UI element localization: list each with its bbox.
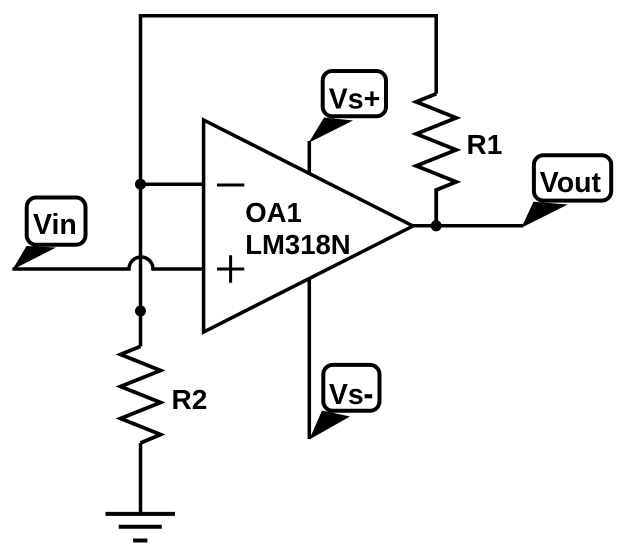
wire output: op-amp apex to Vout flag [413, 224, 523, 228]
junction dot node B (R2 top) [135, 306, 146, 317]
flag Vin (net label) [12, 198, 85, 270]
svg-text:Vs+: Vs+ [329, 83, 381, 115]
svg-text:Vin: Vin [33, 209, 77, 241]
wire feedback loop: node A up, across top, down to R1 [141, 16, 437, 347]
wire R2 bottom to ground [139, 443, 143, 514]
flag Vs- (net label) [309, 365, 379, 440]
svg-text:Vout: Vout [540, 167, 602, 199]
wire Vs+ pin to op-amp top edge [308, 141, 312, 175]
svg-text:R1: R1 [467, 129, 503, 160]
svg-text:LM318N: LM318N [245, 229, 350, 260]
junction dot output node [431, 220, 442, 231]
resistor R1 [416, 94, 456, 225]
junction dot node A (minus input) [135, 179, 146, 190]
svg-text:OA1: OA1 [245, 197, 302, 228]
svg-text:Vs: Vs [329, 379, 364, 411]
wire Vs- pin from op-amp bottom edge [308, 278, 312, 439]
op-amp OA1 triangle [204, 120, 413, 332]
flag Vout (net label) [521, 155, 611, 228]
flag Vs+ (net label) [309, 71, 386, 143]
op-amp plus sign [217, 255, 244, 282]
wire Vin to plus input with hop over vertical wire [12, 257, 204, 269]
svg-text:R2: R2 [172, 384, 208, 415]
ground [106, 514, 176, 541]
resistor R2 [121, 346, 161, 443]
op-amp minus sign [217, 184, 244, 187]
wire minus input: node A to op-amp [141, 182, 205, 186]
